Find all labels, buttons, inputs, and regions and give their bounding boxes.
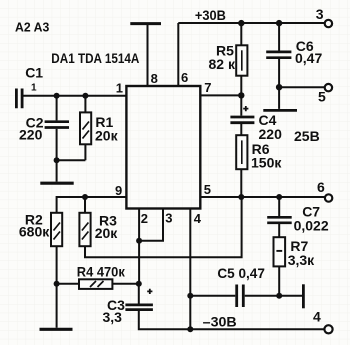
wire: pin 5 output net: [200, 196, 325, 198]
svg-text:7: 7: [204, 80, 211, 95]
wire: R2 bottom through R4 node to ground: [56, 246, 58, 328]
capacitor C5 0.47: [217, 265, 265, 307]
resistor R7 3.3k: [274, 237, 316, 268]
net label -30V: [203, 313, 237, 329]
wire: R5 top lead from rail: [240, 23, 242, 45]
svg-text:6: 6: [181, 70, 188, 85]
node: pin7/R5/C4 junction: [238, 92, 244, 98]
pin 2 label: [141, 211, 148, 226]
ground (below R2): [40, 328, 73, 331]
chassis end bar right of C5: [302, 284, 305, 308]
node: pin5/C7 junction: [276, 194, 282, 200]
wire: R4 right lead to C3 node: [112, 283, 138, 285]
label A2 A3: [15, 20, 49, 35]
wire: R1 bottom to ground node: [57, 144, 86, 160]
svg-text:3: 3: [316, 6, 324, 22]
wire: terminal 5 lead: [279, 86, 324, 88]
wire: C5 left lead from pin4: [190, 295, 235, 297]
capacitor C3 3.3 polarized: [103, 289, 153, 325]
wire: C4 top lead: [240, 95, 242, 115]
ground (near C2/R1): [40, 182, 73, 185]
svg-text:8: 8: [151, 71, 158, 86]
node: pin4/C5 junction: [187, 293, 193, 299]
svg-text:680к: 680к: [19, 224, 50, 240]
svg-text:6: 6: [317, 179, 325, 195]
wire: pin 9 net to R2 top: [57, 197, 127, 213]
pin 4 label: [194, 211, 202, 226]
net label +30V: [195, 7, 226, 23]
svg-text:3,3к: 3,3к: [288, 252, 315, 268]
node: pin1/C2 junction: [54, 93, 60, 99]
terminal 4 (-30V): [313, 309, 333, 334]
node: pin4/-30V rail junction: [187, 326, 193, 332]
pin 7 label: [204, 80, 211, 95]
node: C2/R1 ground junction: [54, 157, 60, 163]
svg-text:220: 220: [19, 127, 43, 143]
wire: pin 7 to R5/C4 node: [200, 94, 241, 96]
terminal 3 (+30V): [316, 6, 332, 27]
wire: C4 bottom to R6 top: [240, 124, 242, 135]
op-amp IC DA1 TDA1514A body: [126, 86, 200, 209]
wire: C6 top lead from rail: [278, 23, 280, 51]
capacitor C6 0.47: [266, 38, 322, 66]
wire: R5 bottom lead to pin7 node: [240, 76, 242, 96]
node: pin5/R6/feedback junction: [238, 194, 244, 200]
pin 5 label: [204, 182, 211, 197]
wire: pin1 net from C1 to IC pin 1: [23, 95, 126, 97]
wire: R7 bottom to C5 net: [278, 266, 280, 295]
svg-text:3: 3: [165, 211, 172, 226]
wire: pin 3 lead down and join pin 2: [139, 208, 163, 241]
node: C6/terminal5 junction: [276, 84, 282, 90]
wire: ground node to ground symbol: [56, 160, 58, 181]
node: pins 2-3 junction: [136, 238, 142, 244]
chassis end bar below C6: [263, 109, 297, 112]
resistor R4 470k: [77, 264, 126, 289]
capacitor C4 220 polarized: [230, 106, 282, 142]
svg-text:C1: C1: [25, 64, 43, 80]
wire: C7 top lead from pin5 net: [278, 197, 280, 216]
svg-text:3,3: 3,3: [103, 309, 123, 325]
svg-text:4: 4: [313, 309, 321, 325]
wire: C6 bottom to terminal5 node: [278, 59, 280, 87]
pin 6 label: [181, 70, 188, 85]
svg-text:–30В: –30В: [203, 313, 237, 329]
svg-text:20к: 20к: [95, 128, 119, 144]
svg-text:1: 1: [116, 81, 123, 96]
label 25V working voltage of C4: [294, 128, 320, 144]
wire: terminal5 node down to end bar: [278, 87, 280, 109]
wire: pins 2-3 node down to R4/C3 node: [138, 241, 140, 284]
pin 9 label: [115, 183, 122, 198]
node: pin9/R3 junction: [82, 194, 88, 200]
resistor R1 20k: [80, 112, 119, 144]
svg-text:5: 5: [318, 89, 326, 105]
wire: R3 bottom feedback run to pin 5 net: [85, 197, 242, 257]
wire: pin 6 up to +30V rail: [177, 23, 179, 86]
node: rail/C6 junction: [276, 20, 282, 26]
pin 8 label: [151, 71, 158, 86]
terminal 5: [318, 84, 332, 105]
svg-text:20к: 20к: [95, 225, 119, 241]
wire: C5 right lead to end bar: [245, 295, 303, 297]
svg-text:+30В: +30В: [195, 7, 226, 23]
chassis bar at pin 8: [130, 22, 161, 25]
pin 1 label: [116, 81, 123, 96]
wire: pin 4 lead down to -30V rail: [189, 208, 191, 330]
svg-text:150к: 150к: [251, 154, 282, 170]
capacitor C2 220: [19, 115, 69, 143]
resistor R5 82k: [209, 43, 248, 76]
resistor R2 680k: [19, 212, 62, 247]
svg-text:A2 A3: A2 A3: [15, 20, 49, 35]
wire: C3 top lead: [138, 284, 140, 304]
node: R4/C3/pins2-3 junction: [136, 281, 142, 287]
svg-text:25В: 25В: [294, 128, 320, 144]
svg-text:9: 9: [115, 183, 122, 198]
wire: C7 bottom to R7 top: [278, 223, 280, 237]
resistor R3 20k: [79, 213, 118, 247]
svg-text:4: 4: [194, 211, 202, 226]
label DA1 TDA 1514A: [51, 50, 139, 66]
node: rail/R5 junction: [238, 20, 244, 26]
pin 3 label: [165, 211, 172, 226]
terminal 6: [317, 179, 332, 202]
svg-text:DA1 TDA 1514A: DA1 TDA 1514A: [51, 50, 139, 66]
node: R2/R4 junction: [54, 281, 60, 287]
svg-text:2: 2: [141, 211, 148, 226]
wire: pin 2 lead down: [138, 208, 140, 241]
svg-text:1: 1: [31, 83, 37, 94]
wire: +30V top rail: [178, 22, 324, 24]
svg-text:5: 5: [204, 182, 211, 197]
capacitor C7 0.022: [267, 204, 329, 234]
wire: pin 8 to top bar: [147, 24, 149, 86]
node: pin1/R1 junction: [82, 93, 88, 99]
wire: R4 left lead: [57, 283, 79, 285]
node: R7/C5 junction: [276, 293, 282, 299]
svg-text:82 к: 82 к: [209, 56, 236, 72]
svg-text:0,022: 0,022: [294, 218, 329, 234]
wire: C2 bottom to ground node: [56, 129, 58, 160]
wire: C2 branch down from pin1 net: [56, 96, 58, 121]
svg-text:R4 470к: R4 470к: [77, 264, 126, 280]
resistor R6 150k: [236, 135, 282, 170]
wire: R1 branch down from pin1 net: [84, 96, 86, 113]
wire: R6 bottom to pin5 net: [240, 169, 242, 197]
svg-text:0,47: 0,47: [295, 50, 322, 66]
wire: C3 bottom to -30V rail corner: [139, 311, 325, 329]
svg-text:220: 220: [259, 126, 283, 142]
svg-text:C5 0,47: C5 0,47: [217, 265, 265, 281]
wire: R3 top branch: [84, 197, 86, 213]
capacitor C1: [16, 64, 43, 108]
